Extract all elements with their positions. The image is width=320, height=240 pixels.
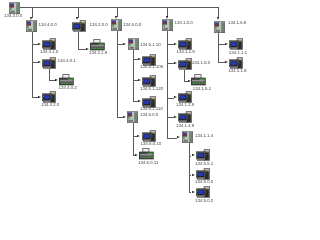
arrow into 134.1.6.6 [217, 17, 219, 20]
wire subnet 134.1 vertical [167, 31, 168, 138]
arrow into 134.6.0.0 top [115, 16, 117, 19]
arrow into 134.4.1.0 [38, 43, 41, 45]
wire branch to 134.6.0.10 [133, 136, 138, 137]
label 134.2.1.9 [89, 51, 107, 56]
wire elbow to 134.5.0.2 [189, 192, 192, 193]
label 134.6.0.0 lower [140, 113, 158, 118]
router 134.6.0.0 lower [127, 111, 138, 123]
arrow into 134.5.0.0 [192, 174, 195, 176]
printer 134.1.5.1 [191, 74, 206, 86]
label 134.1.0.0 [175, 21, 193, 26]
label 134.5.1.110 [140, 107, 163, 112]
host 134.4.1.0 [42, 38, 56, 50]
router 134.5.1.10 [128, 38, 139, 50]
wire branch to 134.5.0.0 [189, 175, 192, 176]
wire top bus [18, 7, 218, 8]
arrow into 134.1.1.9 [174, 43, 177, 45]
wire drop to 134.6.0.0 top [117, 7, 118, 17]
wire subnet 134.1.6 vertical [218, 32, 219, 63]
wire branch to 134.1.1.1 [218, 44, 224, 45]
arrow into 134.5.0.2 [192, 191, 195, 193]
arrow into 134.1.1.1 [225, 43, 228, 45]
wire elbow to printer 134.6.0.11 [133, 155, 136, 156]
arrow into 134.1.5.1 [188, 80, 191, 82]
label 134.1.6.6 [228, 21, 246, 26]
arrow into 134.1.2.9 [174, 96, 177, 98]
label 134.1.5.0 [192, 61, 210, 66]
label 134.2.0.0 [90, 23, 108, 28]
printer 134.6.0.11 [139, 148, 154, 160]
wire branch to 134.1.4.9 [167, 117, 174, 118]
label 134.1.5.1 [193, 87, 211, 92]
host 134.4.2.0 [42, 91, 56, 103]
wire drop to 134.1.6.6 [218, 7, 219, 18]
arrow into 134.4.0.0 [30, 17, 32, 20]
arrow into 134.6.0.0 lower [123, 116, 126, 118]
host 134.1.2.9 [178, 91, 192, 103]
wire elbow to printer 134.2.1.9 [78, 49, 86, 50]
label 134.1.4.9 [176, 124, 194, 129]
wire drop from 134.1.5.0 [184, 70, 185, 81]
label 134.4.1.0 [40, 50, 58, 55]
label 134.1.1.1 [229, 51, 247, 56]
arrow into 134.6.0.11 [135, 154, 138, 156]
wire subnet 134.6 vertical [133, 123, 134, 155]
arrow into 134.5.1.10 [123, 43, 126, 45]
host 134.2.0.0 [72, 20, 86, 32]
host 134.6.0.10 [142, 130, 156, 142]
printer 134.2.1.9 [90, 39, 105, 51]
wire elbow to 134.5.1.110 [133, 101, 138, 102]
router 134.1.6.6 [214, 21, 225, 33]
wire branch to 134.4.0.1 [32, 62, 39, 63]
wire elbow to 134.6.0.0 lower [117, 117, 123, 118]
label 134.6.0.11 [138, 161, 158, 166]
host 134.5.1.105 [142, 54, 156, 66]
label 134.1.1.8 [228, 69, 246, 74]
wire drop from 134.4.0.1 [49, 69, 50, 81]
wire drop from 134.2.0.0 [78, 32, 79, 49]
wire center bus [117, 31, 118, 117]
host 134.5.1.120 [142, 75, 156, 87]
host 134.5.1.110 [142, 96, 156, 108]
wire branch to 134.5.5.1 [189, 156, 192, 157]
printer 134.4.0.2 [59, 74, 74, 86]
arrow into 134.1.0.0 [166, 16, 168, 19]
host 134.5.5.1 [196, 149, 210, 161]
arrow into 134.1.5.0 [174, 62, 177, 64]
arrow into 134.1.4.9 [174, 116, 177, 118]
wire branch to 134.1.1.9 [167, 44, 174, 45]
host 134.1.4.9 [178, 111, 192, 123]
arrow into 134.6.0.10 [137, 135, 140, 137]
node 134.3.0.0 root router [9, 2, 20, 14]
wire subnet A vertical [32, 32, 33, 98]
label 134.6.0.10 [141, 142, 162, 147]
wire branch to 134.5.1.120 [133, 80, 138, 81]
wire drop to 134.1.0.0 [167, 7, 168, 17]
wire subnet 134.5 vertical [189, 143, 190, 193]
wire drop to 134.2.0.0 [78, 7, 79, 18]
host 134.1.1.9 [178, 38, 192, 50]
wire branch to 134.4.1.0 [32, 44, 39, 45]
host 134.1.1.8 [229, 57, 243, 69]
label 134.5.1.105 [140, 65, 163, 70]
router 134.1.1.4 [182, 131, 193, 143]
wire branch to 134.1.2.9 [167, 98, 174, 99]
label 134.5.1.120 [140, 87, 163, 92]
host 134.4.0.1 [42, 57, 56, 69]
host 134.1.5.0 [178, 58, 192, 70]
arrow into 134.5.1.110 [138, 100, 141, 102]
arrow into 134.5.5.1 [192, 154, 195, 156]
router 134.4.0.0 [26, 20, 37, 32]
host 134.5.0.0 [196, 168, 210, 180]
label 134.5.0.2 [195, 199, 213, 204]
host 134.1.1.1 [229, 38, 243, 50]
arrow into 134.2.0.0 [76, 17, 78, 20]
router 134.6.0.0 top [111, 19, 122, 31]
label 134.6.0.0 top [123, 23, 141, 28]
wire branch to 134.1.5.0 [167, 63, 174, 64]
label 134.4.0.1 [58, 59, 76, 64]
label 134.5.0.0 [195, 180, 213, 185]
label 134.1.2.9 [176, 103, 194, 108]
label 134.1.1.4 [195, 134, 213, 139]
label 134.4.0.2 [59, 86, 77, 91]
arrow into 134.5.1.120 [138, 79, 141, 81]
wire elbow to 134.1.1.8 [218, 62, 224, 63]
arrow into 134.1.1.8 [225, 61, 228, 63]
wire drop to 134.4.0.0 [32, 7, 33, 18]
arrow into 134.4.2.0 [38, 96, 41, 98]
arrow into 134.4.0.2 [55, 79, 58, 81]
label 134.4.0.0 [39, 23, 57, 28]
label 134.1.1.9 [177, 50, 195, 55]
arrow into 134.1.1.4 [177, 136, 180, 138]
label 134.5.5.1 [195, 162, 213, 167]
wire elbow to 134.1.1.4 [167, 138, 178, 139]
wire elbow to printer 134.1.5.1 [184, 81, 187, 82]
wire branch to 134.5.1.105 [133, 59, 138, 60]
wire subnet 134.5.1 vertical [133, 50, 134, 102]
wire elbow to printer 134.4.0.2 [49, 80, 56, 81]
wire branch to 134.5.1.10 [117, 44, 124, 45]
router 134.1.0.0 [162, 19, 173, 31]
label 134.4.2.0 [41, 103, 59, 108]
arrow into 134.2.1.9 [86, 48, 89, 50]
arrow into 134.4.0.1 [38, 61, 41, 63]
wire elbow to 134.4.2.0 [32, 97, 39, 98]
arrow into 134.5.1.105 [138, 58, 141, 60]
label 134.5.1.10 [140, 43, 161, 48]
label 134.3.0.0 [4, 14, 22, 19]
host 134.5.0.2 [196, 186, 210, 198]
